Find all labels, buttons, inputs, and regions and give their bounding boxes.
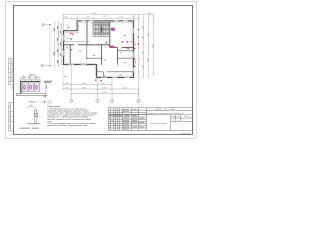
title block outline (109, 108, 193, 131)
magenta vent block upper (111, 28, 114, 31)
hatched pier 2 (28, 83, 33, 92)
left margin upper table rotated text marks (11, 60, 14, 89)
svg-text:1450: 1450 (102, 87, 106, 89)
svg-text:Узел 1: Узел 1 (29, 74, 36, 76)
svg-text:Узел 1: Узел 1 (29, 101, 36, 103)
left margin upper table (9, 59, 14, 85)
top dimension ticks (63, 14, 154, 19)
left axis circle B (42, 23, 50, 26)
interior walls (63, 21, 133, 64)
bottom dimension lines (63, 85, 139, 94)
svg-text:11960: 11960 (91, 13, 96, 15)
svg-text:880: 880 (65, 87, 68, 89)
svg-text:Стадия: Стадия (171, 116, 176, 118)
corridor wall (110, 46, 116, 48)
section arrow mark (44, 95, 48, 98)
interior vertical wall right (117, 47, 119, 64)
right rotated dim texts (135, 26, 153, 68)
left exterior wall (62, 30, 64, 65)
left axis letter marks (42, 24, 45, 67)
svg-text:1540: 1540 (147, 13, 151, 15)
vertical break wave (58, 31, 60, 46)
bottom axis circle 1 (70, 99, 141, 103)
left axis circle A (41, 64, 50, 67)
svg-text:880: 880 (65, 83, 68, 85)
svg-text:950: 950 (100, 83, 103, 85)
detail right dimension (44, 81, 46, 95)
title block left rows (109, 109, 147, 111)
wing bottom wall (97, 77, 135, 79)
main interior horizontal wall (63, 44, 74, 46)
sheet outer cut border (6, 2, 197, 139)
left margin lower table rotated text marks (9, 105, 12, 129)
bottom-left exterior wall (63, 64, 97, 66)
title block sig cell marks (109, 109, 144, 130)
door swing arcs (75, 42, 123, 50)
red door/fixture marks (60, 21, 135, 81)
svg-text:2600: 2600 (82, 83, 86, 85)
notch stoop lines (66, 24, 72, 39)
hatched pier 3 (35, 83, 40, 92)
left wall lower extension line (62, 66, 64, 89)
wing interior wall (97, 71, 103, 73)
top dimension texts (64, 13, 151, 19)
title block sig header text marks (109, 114, 137, 117)
mini post ground line (27, 123, 40, 125)
stair right wall (109, 21, 111, 47)
detail beam cap (20, 81, 41, 82)
title block stage headers (171, 116, 189, 118)
mini post ground hatch (29, 124, 40, 126)
magenta vent small right (127, 41, 129, 43)
detail callout leader (36, 101, 49, 103)
svg-text:План первого этажа: План первого этажа (151, 123, 167, 125)
top-left lower wall (63, 30, 78, 32)
right exterior wall (133, 21, 135, 79)
sig table header dark line (109, 114, 147, 116)
mini post dim text (30, 104, 33, 107)
interior vertical wall (101, 45, 103, 65)
svg-text:2413 — 11 — АС: 2413 — 11 — АС (155, 108, 175, 111)
drawing frame (14, 6, 193, 135)
svg-text:1390: 1390 (131, 17, 135, 19)
svg-text:2650: 2650 (123, 87, 127, 89)
left margin lower table (9, 103, 14, 132)
red mark in notch (72, 34, 73, 35)
small partition (87, 57, 102, 59)
detail base slab (17, 93, 46, 95)
top dimension line 1 (63, 15, 154, 19)
left dimension lines (55, 23, 61, 68)
svg-text:1550: 1550 (103, 16, 107, 18)
windows: lighter segments + ticks (63, 21, 133, 78)
title block right separators (147, 109, 193, 111)
detail callout junction dot (44, 101, 45, 102)
mini post block with cross (35, 113, 38, 116)
red dim values on right (138, 29, 139, 45)
mini post verticals (35, 110, 37, 124)
top exterior wall (77, 20, 134, 22)
top-left notch vertical wall (76, 21, 78, 31)
svg-text:квартир смежных классов котель: квартир смежных классов котельной широт (47, 118, 91, 121)
stair wall door ticks (109, 28, 111, 33)
faint room number labels (66, 27, 126, 75)
detail left column (20, 81, 22, 93)
svg-text:1780: 1780 (119, 17, 123, 19)
hatched pier 1 (22, 83, 27, 92)
detail dim texts (23, 76, 38, 79)
base slab hatch left (17, 94, 22, 96)
left axis junction dots (49, 24, 50, 25)
mini post caption (20, 127, 40, 130)
magenta vent block lower (110, 46, 114, 48)
svg-text:деревянные балки с подведением: деревянные балки с подведением опор. (47, 125, 88, 127)
svg-text:Формат А4: Формат А4 (181, 132, 191, 135)
room partition vertical (69, 45, 71, 65)
svg-text:1180: 1180 (87, 17, 91, 19)
mini post elevation: dim line (27, 106, 36, 108)
left axis connector line (49, 25, 51, 66)
detail leader with note (40, 82, 52, 85)
left rotated dim texts (54, 26, 61, 63)
detail top dimension lines (21, 77, 41, 81)
wing left wall (96, 65, 98, 78)
bottom dim texts (65, 83, 127, 94)
title block left sig columns (110, 108, 112, 131)
stair hall left wall (86, 21, 88, 44)
svg-text:Индивидуальный жилой дом по ул: Индивидуальный жилой дом по ул. Садовая,… (146, 112, 184, 115)
svg-text:2600: 2600 (82, 87, 86, 89)
detail callout circle (49, 100, 52, 103)
svg-text:Листов: Листов (184, 116, 189, 118)
svg-text:Лист: Лист (176, 116, 179, 118)
svg-text:1560: 1560 (64, 17, 68, 19)
exterior walls (63, 21, 134, 79)
right axis/dimension verticals (139, 15, 154, 95)
exterior wall inner faces (65, 23, 133, 76)
staircase (93, 22, 110, 36)
corridor upper thin line (63, 41, 90, 43)
bottom axis extension lines (71, 65, 138, 99)
top dim extension lines (63, 15, 153, 31)
